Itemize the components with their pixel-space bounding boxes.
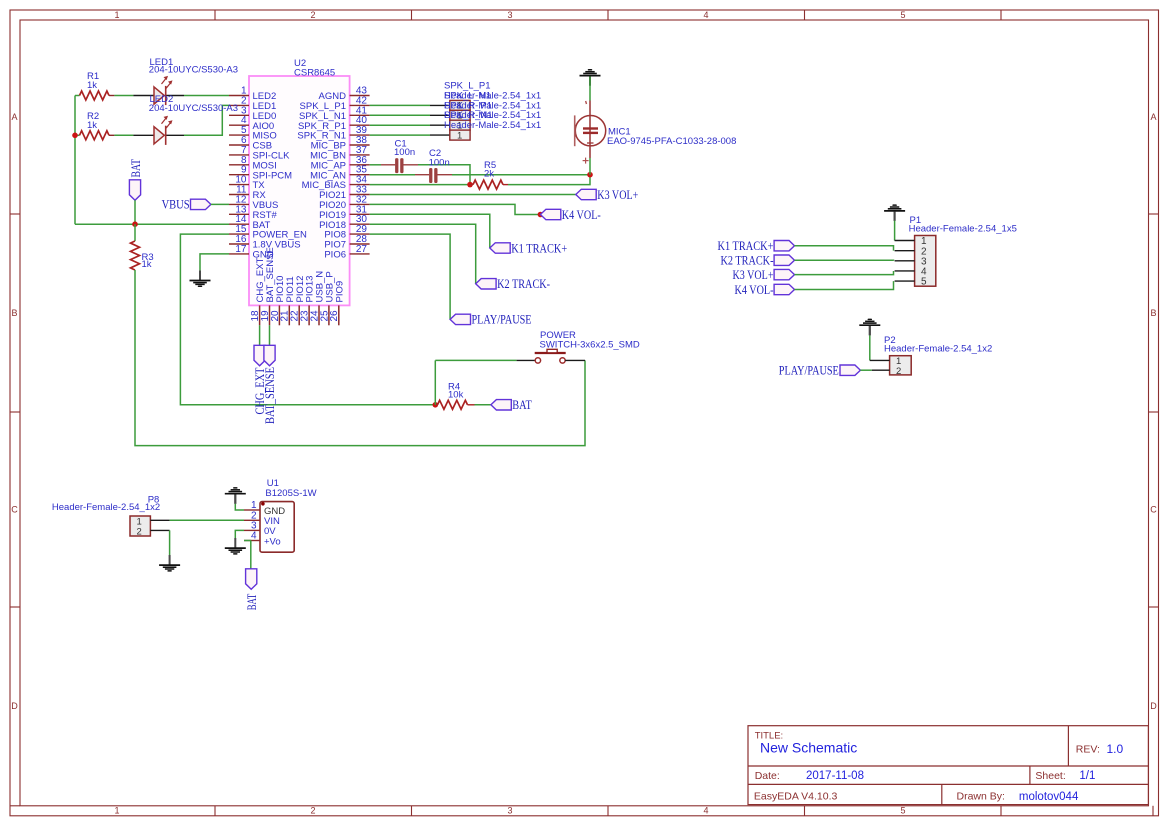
svg-text:B: B bbox=[1150, 308, 1156, 318]
svg-text:BAT: BAT bbox=[512, 398, 532, 412]
svg-text:5: 5 bbox=[900, 806, 905, 816]
svg-text:BAT: BAT bbox=[129, 159, 143, 178]
svg-text:K3 VOL+: K3 VOL+ bbox=[597, 188, 638, 202]
svg-text:K1 TRACK+: K1 TRACK+ bbox=[718, 239, 774, 253]
svg-text:K4 VOL-: K4 VOL- bbox=[735, 283, 774, 297]
svg-text:Drawn By:: Drawn By: bbox=[957, 791, 1005, 803]
svg-text:+Vo: +Vo bbox=[264, 536, 281, 547]
svg-text:Header-Female-2.54_1x5: Header-Female-2.54_1x5 bbox=[909, 224, 1017, 235]
svg-text:1k: 1k bbox=[87, 120, 97, 131]
svg-text:Sheet:: Sheet: bbox=[1035, 770, 1065, 782]
svg-text:3: 3 bbox=[507, 806, 512, 816]
svg-text:PLAY/PAUSE: PLAY/PAUSE bbox=[779, 364, 839, 378]
svg-text:1: 1 bbox=[114, 806, 119, 816]
svg-text:VBUS: VBUS bbox=[162, 198, 190, 212]
svg-text:17: 17 bbox=[235, 244, 247, 255]
svg-text:REV:: REV: bbox=[1076, 744, 1100, 756]
svg-text:204-10UYC/S530-A3: 204-10UYC/S530-A3 bbox=[149, 103, 238, 114]
svg-text:Date:: Date: bbox=[755, 770, 780, 782]
svg-text:2: 2 bbox=[896, 366, 901, 377]
svg-text:10k: 10k bbox=[448, 389, 464, 400]
svg-text:K3 VOL+: K3 VOL+ bbox=[733, 268, 774, 282]
svg-text:4: 4 bbox=[251, 531, 257, 542]
svg-text:204-10UYC/S530-A3: 204-10UYC/S530-A3 bbox=[149, 65, 238, 76]
svg-text:3: 3 bbox=[507, 10, 512, 20]
svg-text:1.0: 1.0 bbox=[1107, 742, 1124, 756]
svg-text:2: 2 bbox=[310, 10, 315, 20]
svg-text:Header-Female-2.54_1x2: Header-Female-2.54_1x2 bbox=[884, 344, 992, 355]
svg-text:100n: 100n bbox=[394, 147, 415, 158]
svg-text:D: D bbox=[11, 701, 18, 711]
svg-text:PIO9: PIO9 bbox=[334, 281, 345, 303]
svg-text:PLAY/PAUSE: PLAY/PAUSE bbox=[472, 313, 532, 327]
svg-text:BAT: BAT bbox=[245, 594, 259, 611]
svg-text:2k: 2k bbox=[484, 168, 494, 179]
svg-text:5: 5 bbox=[921, 277, 927, 288]
svg-text:1: 1 bbox=[457, 130, 462, 141]
svg-text:BAT_SENSE: BAT_SENSE bbox=[263, 367, 277, 424]
svg-text:27: 27 bbox=[356, 244, 368, 255]
svg-text:1/1: 1/1 bbox=[1079, 770, 1095, 782]
svg-text:A: A bbox=[11, 112, 17, 122]
svg-text:1k: 1k bbox=[87, 80, 97, 91]
svg-text:K1 TRACK+: K1 TRACK+ bbox=[511, 241, 567, 255]
svg-text:Header-Female-2.54_1x2: Header-Female-2.54_1x2 bbox=[52, 502, 160, 513]
svg-text:A: A bbox=[1150, 112, 1156, 122]
svg-text:PIO6: PIO6 bbox=[324, 250, 346, 261]
svg-text:2017-11-08: 2017-11-08 bbox=[806, 770, 864, 782]
svg-text:B: B bbox=[11, 308, 17, 318]
svg-text:B1205S-1W: B1205S-1W bbox=[265, 488, 316, 499]
svg-text:molotov044: molotov044 bbox=[1019, 791, 1079, 803]
svg-text:New Schematic: New Schematic bbox=[760, 740, 857, 756]
svg-text:K2 TRACK-: K2 TRACK- bbox=[497, 277, 550, 291]
svg-text:CSR8645: CSR8645 bbox=[294, 68, 335, 79]
svg-text:4: 4 bbox=[703, 10, 708, 20]
svg-text:C: C bbox=[11, 505, 18, 515]
svg-text:26: 26 bbox=[329, 310, 340, 322]
svg-text:1: 1 bbox=[114, 10, 119, 20]
svg-text:EAO-9745-PFA-C1033-28-008: EAO-9745-PFA-C1033-28-008 bbox=[607, 136, 736, 147]
svg-text:K4 VOL-: K4 VOL- bbox=[562, 208, 601, 222]
svg-text:1k: 1k bbox=[142, 259, 152, 270]
svg-text:2: 2 bbox=[310, 806, 315, 816]
svg-text:C: C bbox=[1150, 505, 1157, 515]
svg-text:EasyEDA V4.10.3: EasyEDA V4.10.3 bbox=[754, 791, 838, 803]
svg-text:2: 2 bbox=[137, 526, 142, 537]
svg-text:5: 5 bbox=[900, 10, 905, 20]
svg-text:Header-Male-2.54_1x1: Header-Male-2.54_1x1 bbox=[444, 120, 541, 131]
svg-text:K2 TRACK-: K2 TRACK- bbox=[721, 254, 774, 268]
svg-text:4: 4 bbox=[703, 806, 708, 816]
svg-text:D: D bbox=[1150, 701, 1157, 711]
svg-text:100n: 100n bbox=[429, 157, 450, 168]
